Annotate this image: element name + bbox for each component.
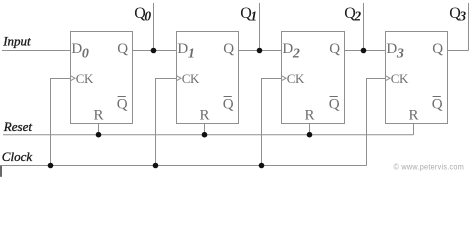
svg-text:R: R <box>304 108 314 124</box>
svg-text:3: 3 <box>396 47 404 62</box>
svg-text:D: D <box>282 41 293 57</box>
svg-text:CK: CK <box>391 71 409 86</box>
svg-text:Q: Q <box>223 97 234 113</box>
svg-text:Q: Q <box>223 41 234 57</box>
svg-text:R: R <box>408 108 418 124</box>
svg-text:D: D <box>177 41 188 57</box>
svg-text:Q: Q <box>329 41 340 57</box>
svg-text:Input: Input <box>2 34 31 49</box>
svg-text:CK: CK <box>287 71 305 86</box>
svg-text:Reset: Reset <box>3 119 33 134</box>
svg-text:1: 1 <box>188 47 195 62</box>
svg-text:1: 1 <box>250 9 257 24</box>
svg-text:Q: Q <box>117 97 128 113</box>
svg-text:CK: CK <box>76 71 94 86</box>
svg-text:Q: Q <box>117 41 128 57</box>
svg-text:0: 0 <box>82 47 89 62</box>
svg-text:© www.petervis.com: © www.petervis.com <box>394 161 465 171</box>
svg-text:D: D <box>386 41 397 57</box>
svg-text:R: R <box>93 108 103 124</box>
svg-text:Q: Q <box>432 97 443 113</box>
svg-text:D: D <box>71 41 82 57</box>
svg-text:Clock: Clock <box>2 149 33 164</box>
svg-text:Q: Q <box>432 41 443 57</box>
svg-text:2: 2 <box>292 47 300 62</box>
svg-text:0: 0 <box>144 9 151 24</box>
svg-text:3: 3 <box>458 9 466 24</box>
svg-text:CK: CK <box>182 71 200 86</box>
svg-text:2: 2 <box>353 9 361 24</box>
svg-text:Q: Q <box>329 97 340 113</box>
svg-text:R: R <box>199 108 209 124</box>
